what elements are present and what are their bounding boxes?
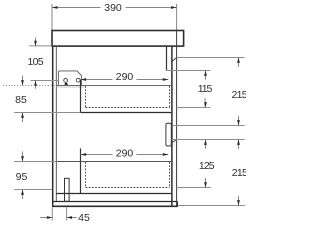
dimension 125 [205, 140, 207, 149]
lower drawer hidden front (dashed) [85, 162, 87, 188]
upper drawer slide bracket [58, 71, 81, 85]
lower back diagonal [172, 140, 177, 143]
dimension line 390 [52, 7, 101, 9]
dimension 85 lower arrow [22, 113, 24, 123]
svg-text:115: 115 [198, 83, 213, 95]
dimension 105 upper arrow [35, 38, 37, 47]
cabinet left side outer edge [52, 46, 54, 206]
extension line for 115 bottom [177, 107, 211, 109]
countertop slab [52, 31, 184, 47]
lower slide bracket (right rear) [166, 123, 171, 146]
upper drawer hidden back (dashed) [169, 86, 171, 108]
dimension 95 upper arrow [22, 152, 24, 162]
lower drawer hidden bottom (dashed) [86, 187, 170, 189]
lower drawer top line [56, 161, 171, 163]
cabinet back rail line A [166, 46, 168, 70]
bracket hole rear [76, 78, 80, 82]
svg-text:105: 105 [27, 56, 43, 68]
centre dash-dot line [3, 85, 56, 87]
dimension 45 right arrow [67, 217, 77, 219]
upper back diagonal [172, 58, 176, 62]
bottom support block [65, 178, 70, 201]
extension line between sections right [172, 125, 245, 127]
bracket hole front [64, 79, 68, 83]
cabinet left side inner face [55, 46, 57, 201]
lower drawer bottom [56, 193, 171, 195]
extension line top for 215 upper [177, 57, 245, 59]
upper rail lower gray line [56, 86, 84, 88]
extension line at slide axis for 105 dim [31, 80, 59, 82]
extension line for 95 bottom [14, 189, 52, 191]
svg-text:215: 215 [232, 167, 246, 179]
rail A bottom tick [167, 70, 173, 72]
dimension line 290 upper [81, 79, 113, 81]
svg-text:45: 45 [78, 212, 90, 224]
lower drawer hidden back (dashed) [169, 162, 171, 188]
extension line right of 390 dim [176, 4, 178, 30]
svg-text:215: 215 [231, 89, 246, 101]
svg-text:85: 85 [15, 94, 27, 106]
extension line for 115 top [167, 70, 211, 72]
svg-text:390: 390 [104, 2, 122, 14]
dimension line 290 lower [81, 154, 113, 156]
cabinet bottom panel top line [53, 201, 178, 203]
extension line under countertop for 105 dim [29, 45, 52, 47]
upper drawer bottom [81, 112, 172, 114]
svg-text:95: 95 [16, 171, 28, 183]
dimension 215 upper [238, 58, 240, 67]
extension of 95 dim to drawer top [14, 161, 56, 163]
upper drawer front edge [80, 80, 82, 113]
upper slide rail line [56, 85, 171, 87]
cabinet back panel outer line C [176, 31, 178, 207]
lower drawer front edge [80, 148, 82, 193]
dimension 215 lower [238, 140, 240, 149]
extension line bottom right [178, 205, 245, 207]
extension line left of 390 dim [51, 4, 53, 30]
cabinet bottom edge [52, 205, 178, 207]
cabinet bottom right closing edge [177, 202, 179, 207]
extension of 85 dim to drawer bottom [14, 112, 80, 114]
svg-text:290: 290 [116, 71, 134, 83]
extension lines for 45 dim [51, 207, 53, 220]
dimension 85 upper arrow [22, 76, 24, 86]
extension line lower section top right [172, 139, 245, 141]
extension line for 125 bottom [177, 187, 211, 189]
svg-text:290: 290 [116, 148, 134, 160]
dimension 95 lower arrow [22, 190, 24, 200]
upper drawer hidden front (dashed) [85, 86, 87, 108]
dimension 45 left arrow [40, 217, 52, 219]
svg-text:125: 125 [199, 160, 215, 172]
cabinet back panel inner line B [171, 46, 173, 206]
upper drawer hidden bottom (dashed) [86, 107, 170, 109]
bracket pin (filled) [65, 83, 68, 86]
dimension 115 [205, 71, 207, 80]
dimension 105 lower arrow [35, 80, 37, 89]
